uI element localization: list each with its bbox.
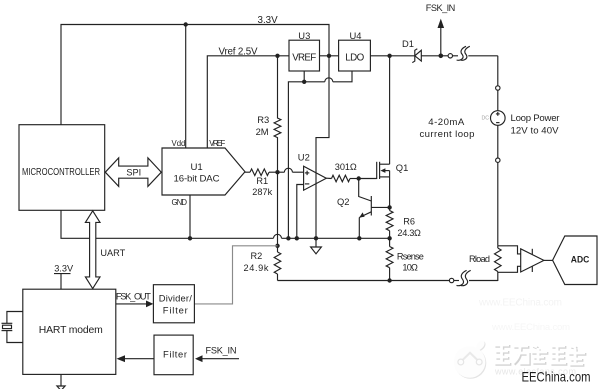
resistor Rload <box>469 246 501 281</box>
svg-text:Vdd: Vdd <box>172 139 186 148</box>
svg-text:current loop: current loop <box>420 129 475 140</box>
dac U1 <box>162 139 245 207</box>
wire opamp -input to gnd <box>297 185 304 239</box>
svg-text:EEChina.com: EEChina.com <box>522 370 591 385</box>
node FSK_IN tap junction <box>439 54 444 59</box>
block divider/filter <box>153 285 194 323</box>
svg-text:3.3V: 3.3V <box>54 264 74 274</box>
svg-text:U2: U2 <box>298 152 310 163</box>
wire bottom loop return rail <box>278 280 450 282</box>
svg-text:DC: DC <box>482 116 490 122</box>
ground symbol mid <box>311 238 322 254</box>
terminal circle above source <box>496 86 500 90</box>
svg-text:R3: R3 <box>257 114 269 125</box>
ground hart <box>57 374 65 389</box>
regulator U4 LDO <box>339 30 371 71</box>
node opamp supply rail junction <box>314 236 318 240</box>
node -input gnd junction <box>295 236 299 240</box>
label 4-20mA current loop <box>420 117 475 140</box>
svg-text:Filter: Filter <box>163 304 188 315</box>
svg-text:VREF: VREF <box>209 139 225 148</box>
terminal circle below source <box>496 158 500 162</box>
svg-text:287k: 287k <box>252 187 272 197</box>
svg-text:U1: U1 <box>191 162 203 173</box>
wire DAC GND pin <box>189 195 191 238</box>
wire LDO output <box>370 55 414 57</box>
op-amp U2 <box>298 152 327 191</box>
svg-text:Vref 2.5V: Vref 2.5V <box>219 46 258 57</box>
svg-text:Rsense: Rsense <box>397 252 424 262</box>
svg-text:www.EEChina.com: www.EEChina.com <box>478 298 562 309</box>
svg-text:FSK_OUT: FSK_OUT <box>116 292 151 302</box>
svg-text:UART: UART <box>100 248 125 258</box>
block filter <box>154 335 193 375</box>
microcontroller <box>19 125 105 211</box>
resistor R3 <box>256 56 281 172</box>
svg-text:Loop Power: Loop Power <box>511 113 561 124</box>
resistor R6 <box>386 211 421 239</box>
node LDO out Q1 drain junction <box>387 54 391 58</box>
svg-text:R2: R2 <box>251 251 263 261</box>
svg-text:4-20mA: 4-20mA <box>428 117 465 128</box>
svg-text:VREF: VREF <box>292 52 316 63</box>
svg-text:R6: R6 <box>403 217 415 227</box>
wire 3.3V top rail <box>61 25 329 167</box>
svg-text:2M: 2M <box>256 126 269 137</box>
resistor 301ohm <box>326 162 358 182</box>
wire Q1 source down <box>389 177 391 211</box>
bus arrow UART <box>85 211 125 289</box>
break symbol bottom <box>454 270 498 285</box>
svg-text:U4: U4 <box>350 30 362 41</box>
node Vref-3.3V junction <box>327 54 331 58</box>
svg-text:www.EEChina.com: www.EEChina.com <box>491 322 570 333</box>
regulator U3 VREF <box>289 30 320 71</box>
svg-text:Rload: Rload <box>469 254 490 264</box>
terminal circle loop bottom <box>449 278 453 282</box>
wire U2 supply through <box>315 166 317 238</box>
wire Vdd pin <box>185 25 187 149</box>
watermark elecfans url <box>494 367 576 377</box>
resistor R1 <box>245 169 278 197</box>
transistor Q2 <box>337 179 390 239</box>
terminal circle loop top <box>441 54 453 58</box>
wire summing node down to R2 <box>277 172 279 246</box>
node gate node <box>357 176 361 180</box>
signal arrow filter to hart <box>117 355 155 362</box>
svg-text:3.3V: 3.3V <box>258 15 279 26</box>
wire loop right vertical <box>497 56 499 246</box>
node Vref-R3 junction <box>275 54 279 58</box>
svg-text:LDO: LDO <box>345 52 364 63</box>
svg-text:MICROCONTROLLER: MICROCONTROLLER <box>22 167 100 178</box>
node DAC GND junction <box>188 236 192 240</box>
amp buffer <box>521 249 553 272</box>
svg-text:12V to 40V: 12V to 40V <box>511 126 560 137</box>
signal arrow FSK_OUT <box>116 292 154 308</box>
node R2 top junction <box>275 244 279 248</box>
watermark CJK strokes <box>495 344 586 366</box>
wire GND rail <box>190 234 390 238</box>
svg-text:Filter: Filter <box>163 349 187 360</box>
node Q2 emitter rail junction <box>357 236 361 240</box>
svg-text:R1: R1 <box>256 176 268 186</box>
adc block <box>553 236 597 285</box>
bus arrow SPI <box>105 158 161 187</box>
watermark logo elecfans <box>454 340 487 379</box>
wire amp bottom input <box>498 266 521 272</box>
break symbol top <box>453 46 498 60</box>
wire VREF gnd pin <box>303 71 305 82</box>
wire amp top input <box>498 246 521 254</box>
wire MCU bottom to GND rail <box>61 210 190 238</box>
node VREF-LDO gnd junction <box>302 80 306 84</box>
wire LDO gnd pin with hop <box>288 71 352 238</box>
transistor Q1 <box>359 162 409 179</box>
wire VREF to LDO <box>320 55 339 57</box>
signal arrow FSK_IN bottom <box>195 345 239 362</box>
svg-text:U3: U3 <box>298 30 310 41</box>
signal arrow FSK_IN top <box>426 3 456 56</box>
hart modem <box>23 289 116 374</box>
wire summing node to opamp +input with hop <box>278 168 304 172</box>
svg-text:10Ω: 10Ω <box>402 262 418 272</box>
svg-text:SPI: SPI <box>126 168 141 178</box>
resistor Rsense <box>386 238 424 280</box>
svg-text:ADC: ADC <box>571 254 590 265</box>
wire Vref 2.5V <box>207 56 289 148</box>
svg-text:301Ω: 301Ω <box>335 162 357 172</box>
supply 3.3V hart <box>54 264 74 290</box>
watermark EEChina.com <box>522 370 591 385</box>
svg-text:Q1: Q1 <box>396 162 409 173</box>
watermark ghost url <box>478 298 570 334</box>
diode D1 zener <box>402 38 441 63</box>
crystal X1 <box>2 312 23 343</box>
resistor R2 <box>244 246 281 281</box>
node summing junction <box>275 170 279 174</box>
source loop power DC <box>482 111 561 137</box>
svg-text:24.9k: 24.9k <box>244 263 269 273</box>
svg-text:24.3Ω: 24.3Ω <box>397 228 421 238</box>
svg-text:FSK_IN: FSK_IN <box>426 3 456 13</box>
svg-text:Q2: Q2 <box>337 196 350 207</box>
node VREF-gnd rail junction <box>286 236 290 240</box>
wire Q1 drain to loop <box>389 56 391 164</box>
svg-text:16-bit DAC: 16-bit DAC <box>174 174 220 185</box>
node 3.3V-Vdd junction <box>184 22 188 26</box>
svg-text:GND: GND <box>172 198 188 207</box>
node Q2 base R6 junction <box>387 205 391 209</box>
node R6 rail junction <box>387 236 391 240</box>
svg-text:FSK_IN: FSK_IN <box>206 345 237 355</box>
svg-text:Divider/: Divider/ <box>159 293 192 304</box>
svg-text:HART modem: HART modem <box>39 325 103 336</box>
wire divider output to R2 top <box>194 246 277 304</box>
node Rsense bottom junction <box>387 278 391 282</box>
svg-text:D1: D1 <box>402 38 414 49</box>
